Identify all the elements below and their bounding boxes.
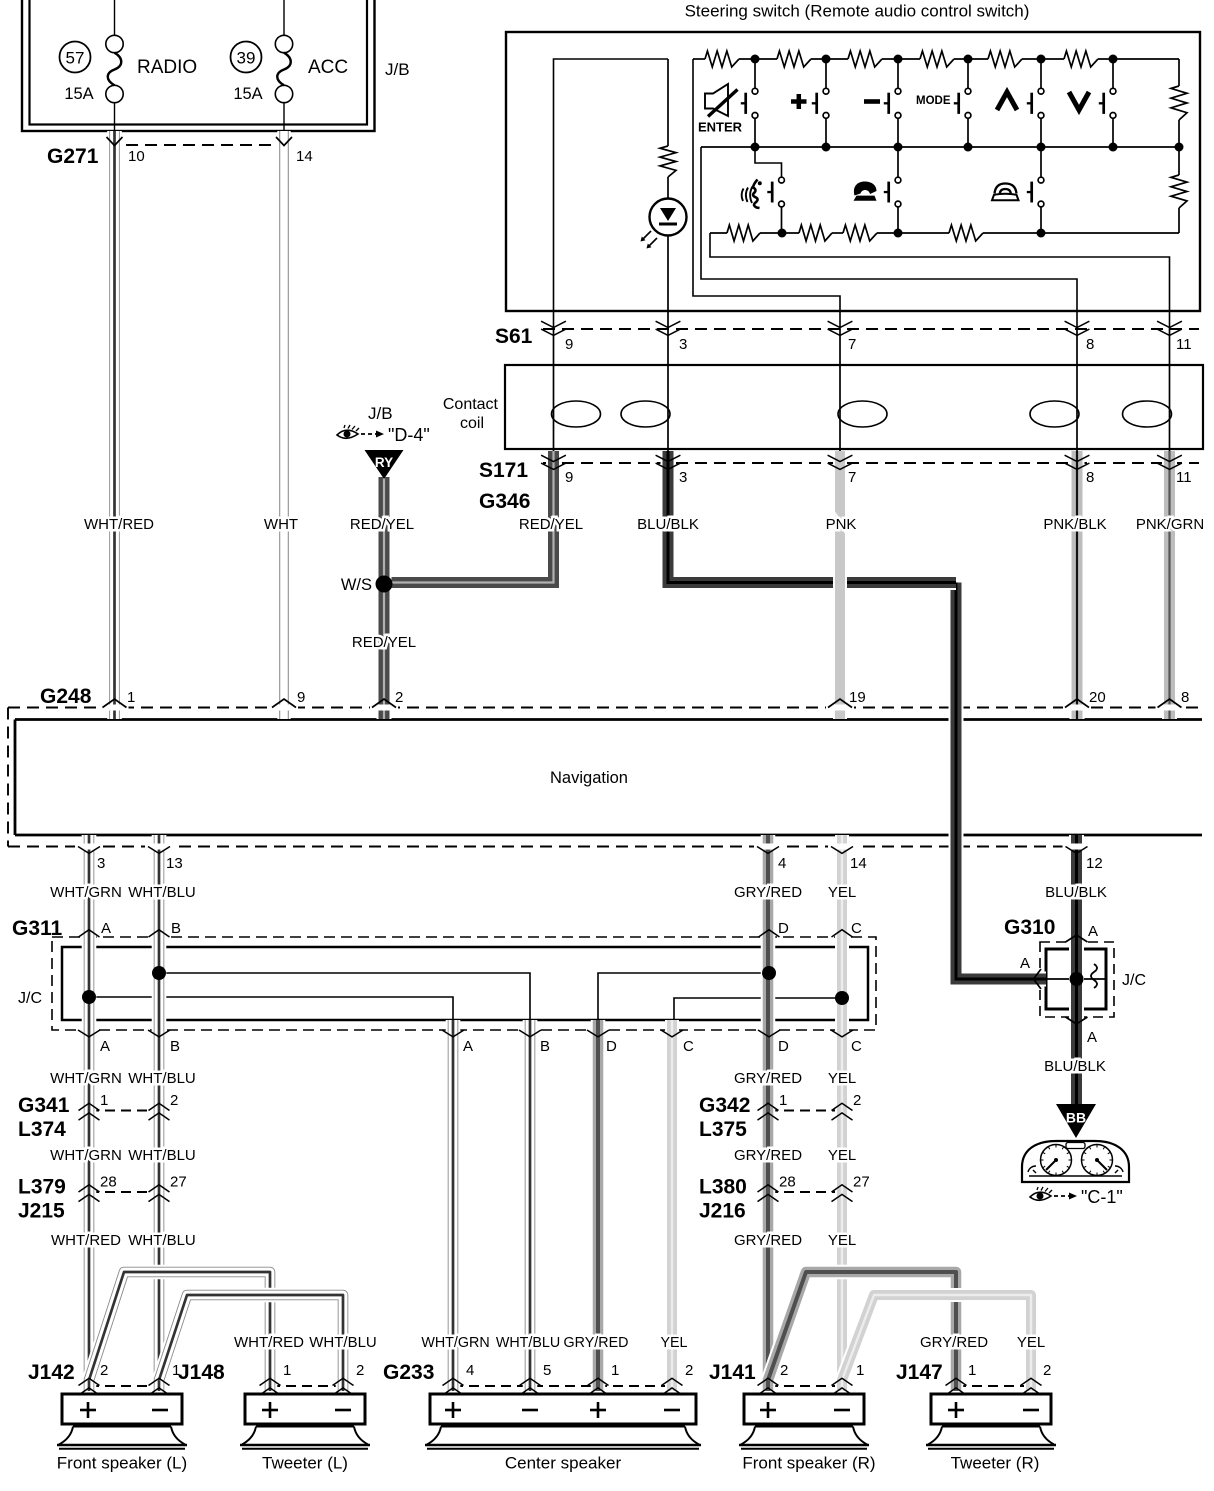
svg-text:ENTER: ENTER: [698, 120, 743, 135]
svg-text:L375: L375: [699, 1118, 747, 1141]
svg-text:9: 9: [565, 336, 573, 353]
svg-text:WHT/GRN: WHT/GRN: [50, 1147, 122, 1164]
svg-text:3: 3: [679, 469, 687, 486]
svg-text:8: 8: [1086, 469, 1094, 486]
svg-text:8: 8: [1181, 689, 1189, 706]
svg-text:1: 1: [968, 1362, 976, 1379]
svg-text:8: 8: [1086, 336, 1094, 353]
svg-text:2: 2: [356, 1362, 364, 1379]
svg-text:RED/YEL: RED/YEL: [519, 516, 583, 533]
svg-text:13: 13: [166, 855, 183, 872]
svg-text:A: A: [1088, 923, 1098, 940]
svg-text:20: 20: [1089, 689, 1106, 706]
svg-text:C: C: [851, 920, 862, 937]
svg-text:Tweeter (L): Tweeter (L): [262, 1454, 348, 1473]
svg-text:Steering switch (Remote audio: Steering switch (Remote audio control sw…: [685, 2, 1030, 21]
svg-text:BB: BB: [1066, 1110, 1086, 1126]
svg-text:YEL: YEL: [1017, 1334, 1045, 1351]
svg-text:ACC: ACC: [308, 57, 348, 78]
svg-text:S171: S171: [479, 459, 528, 482]
svg-text:2: 2: [170, 1092, 178, 1109]
svg-text:2: 2: [395, 689, 403, 706]
svg-text:WHT/RED: WHT/RED: [234, 1334, 304, 1351]
svg-text:G346: G346: [479, 490, 530, 513]
svg-text:J/B: J/B: [385, 60, 410, 79]
svg-text:PNK/GRN: PNK/GRN: [1136, 516, 1204, 533]
svg-text:WHT/GRN: WHT/GRN: [50, 884, 122, 901]
svg-text:WHT/BLU: WHT/BLU: [128, 1147, 196, 1164]
svg-text:1: 1: [172, 1362, 180, 1379]
svg-text:YEL: YEL: [828, 1232, 856, 1249]
svg-text:10: 10: [128, 148, 145, 165]
svg-text:BLU/BLK: BLU/BLK: [637, 516, 699, 533]
svg-text:1: 1: [283, 1362, 291, 1379]
svg-text:WHT/BLU: WHT/BLU: [128, 884, 196, 901]
svg-text:J142: J142: [28, 1361, 75, 1384]
svg-text:39: 39: [237, 49, 256, 68]
svg-text:B: B: [540, 1038, 550, 1055]
svg-text:J147: J147: [896, 1361, 943, 1384]
svg-text:G233: G233: [383, 1361, 434, 1384]
svg-text:RADIO: RADIO: [137, 57, 197, 78]
svg-text:12: 12: [1086, 855, 1103, 872]
svg-text:WHT/GRN: WHT/GRN: [421, 1335, 489, 1351]
svg-text:J/C: J/C: [1122, 972, 1146, 989]
svg-text:9: 9: [297, 689, 305, 706]
svg-text:19: 19: [849, 689, 866, 706]
svg-text:J141: J141: [709, 1361, 756, 1384]
svg-text:WHT: WHT: [264, 516, 298, 533]
svg-text:G248: G248: [40, 685, 92, 708]
svg-text:WHT/BLU: WHT/BLU: [496, 1335, 560, 1351]
svg-text:1: 1: [611, 1362, 619, 1379]
svg-text:G311: G311: [12, 917, 63, 940]
svg-text:"C-1": "C-1": [1081, 1187, 1123, 1207]
svg-text:2: 2: [780, 1362, 788, 1379]
svg-text:2: 2: [685, 1362, 693, 1379]
svg-text:Navigation: Navigation: [550, 769, 628, 787]
svg-text:coil: coil: [460, 415, 484, 432]
svg-text:WHT/RED: WHT/RED: [51, 1232, 121, 1249]
svg-text:YEL: YEL: [828, 884, 856, 901]
svg-text:11: 11: [1176, 469, 1192, 486]
svg-text:G310: G310: [1004, 916, 1055, 939]
svg-text:J215: J215: [18, 1200, 65, 1223]
svg-text:3: 3: [97, 855, 105, 872]
svg-text:S61: S61: [495, 325, 533, 348]
svg-text:27: 27: [170, 1174, 187, 1191]
svg-text:G341: G341: [18, 1094, 70, 1117]
svg-text:7: 7: [848, 469, 856, 486]
svg-text:B: B: [171, 920, 181, 937]
svg-text:A: A: [463, 1038, 473, 1055]
svg-text:WHT/BLU: WHT/BLU: [128, 1232, 196, 1249]
svg-text:L374: L374: [18, 1118, 66, 1141]
svg-text:Front speaker (L): Front speaker (L): [57, 1454, 187, 1473]
svg-text:A: A: [1087, 1029, 1097, 1046]
svg-text:4: 4: [778, 855, 786, 872]
svg-text:PNK/BLK: PNK/BLK: [1043, 516, 1106, 533]
svg-text:YEL: YEL: [828, 1070, 856, 1087]
svg-text:1: 1: [779, 1092, 787, 1109]
svg-text:MODE: MODE: [916, 95, 951, 107]
svg-text:28: 28: [779, 1174, 796, 1191]
svg-text:GRY/RED: GRY/RED: [734, 1070, 802, 1087]
svg-text:GRY/RED: GRY/RED: [734, 1147, 802, 1164]
svg-text:GRY/RED: GRY/RED: [734, 884, 802, 901]
svg-text:11: 11: [1176, 336, 1192, 353]
svg-text:"D-4": "D-4": [388, 425, 430, 445]
svg-text:GRY/RED: GRY/RED: [734, 1232, 802, 1249]
svg-text:J/C: J/C: [18, 990, 42, 1007]
svg-text:GRY/RED: GRY/RED: [564, 1335, 629, 1351]
svg-text:W/S: W/S: [341, 576, 372, 594]
svg-text:28: 28: [100, 1174, 117, 1191]
svg-text:D: D: [606, 1038, 617, 1055]
svg-text:27: 27: [853, 1174, 870, 1191]
svg-text:1: 1: [100, 1092, 108, 1109]
svg-text:15A: 15A: [233, 85, 262, 103]
svg-text:G342: G342: [699, 1094, 750, 1117]
svg-text:J216: J216: [699, 1200, 746, 1223]
svg-text:A: A: [101, 920, 111, 937]
svg-text:RED/YEL: RED/YEL: [352, 634, 416, 651]
svg-text:G271: G271: [47, 145, 99, 168]
svg-text:3: 3: [679, 336, 687, 353]
svg-text:J148: J148: [178, 1361, 225, 1384]
svg-text:2: 2: [853, 1092, 861, 1109]
svg-text:Front speaker (R): Front speaker (R): [742, 1454, 875, 1473]
svg-text:D: D: [778, 920, 789, 937]
svg-text:Center speaker: Center speaker: [505, 1454, 622, 1473]
svg-text:L380: L380: [699, 1176, 747, 1199]
svg-text:GRY/RED: GRY/RED: [920, 1334, 988, 1351]
svg-text:BLU/BLK: BLU/BLK: [1045, 884, 1107, 901]
svg-text:7: 7: [848, 336, 856, 353]
svg-text:14: 14: [850, 855, 867, 872]
svg-text:YEL: YEL: [828, 1147, 856, 1164]
svg-text:PNK: PNK: [826, 516, 857, 533]
svg-text:BLU/BLK: BLU/BLK: [1044, 1058, 1106, 1075]
svg-text:WHT/BLU: WHT/BLU: [128, 1070, 196, 1087]
svg-text:B: B: [170, 1038, 180, 1055]
svg-text:WHT/RED: WHT/RED: [84, 516, 154, 533]
svg-text:2: 2: [1043, 1362, 1051, 1379]
svg-text:Tweeter (R): Tweeter (R): [951, 1454, 1040, 1473]
svg-text:1: 1: [127, 689, 135, 706]
svg-text:4: 4: [466, 1362, 474, 1379]
svg-text:57: 57: [66, 49, 85, 68]
svg-text:A: A: [1020, 955, 1030, 972]
svg-text:L379: L379: [18, 1176, 66, 1199]
svg-text:5: 5: [543, 1362, 551, 1379]
svg-text:1: 1: [856, 1362, 864, 1379]
svg-text:YEL: YEL: [660, 1335, 687, 1351]
svg-text:14: 14: [296, 148, 313, 165]
svg-text:A: A: [100, 1038, 110, 1055]
svg-text:RED/YEL: RED/YEL: [350, 516, 414, 533]
svg-text:D: D: [778, 1038, 789, 1055]
svg-text:C: C: [851, 1038, 862, 1055]
svg-text:RY: RY: [375, 455, 393, 470]
svg-text:9: 9: [565, 469, 573, 486]
svg-text:J/B: J/B: [368, 404, 393, 423]
svg-text:WHT/GRN: WHT/GRN: [50, 1070, 122, 1087]
svg-text:WHT/BLU: WHT/BLU: [309, 1334, 377, 1351]
svg-text:C: C: [683, 1038, 694, 1055]
svg-text:15A: 15A: [64, 85, 93, 103]
svg-text:2: 2: [100, 1362, 108, 1379]
svg-text:Contact: Contact: [443, 396, 499, 413]
